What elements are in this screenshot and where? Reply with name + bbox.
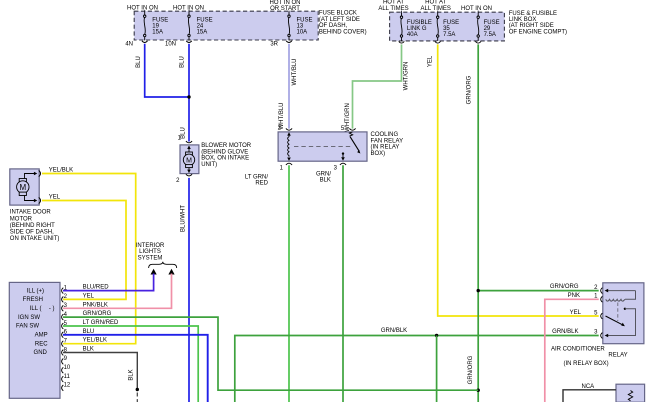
svg-text:FUSE: FUSE [152, 17, 168, 23]
svg-text:(AT LEFT SIDE: (AT LEFT SIDE [319, 17, 360, 23]
svg-text:RED: RED [255, 181, 268, 187]
pin number labels 1-12 [64, 285, 71, 388]
svg-text:YEL: YEL [49, 195, 61, 201]
svg-text:HOT IN ON: HOT IN ON [461, 6, 492, 12]
svg-text:11: 11 [64, 374, 71, 380]
svg-text:OF DASH,: OF DASH, [319, 23, 348, 29]
svg-text:BLU: BLU [83, 329, 95, 335]
svg-text:HOT IN ON: HOT IN ON [270, 0, 301, 6]
wire BLU/RED from pin 1 to interior lights [63, 274, 154, 291]
A/C relay dashed actuator [617, 303, 619, 322]
svg-text:29: 29 [484, 26, 491, 32]
fuse F35 symbol [435, 12, 441, 43]
svg-text:REC: REC [35, 341, 48, 347]
value label FUSE 35 7.5A [443, 20, 459, 38]
wire YEL from intake door motor to connector pin 2 [42, 201, 126, 300]
svg-text:FAN RELAY: FAN RELAY [371, 138, 404, 144]
fuse F19 symbol [142, 11, 148, 42]
svg-text:YEL: YEL [428, 55, 434, 67]
label INTERIOR LIGHTS SYSTEM [136, 243, 165, 261]
svg-text:FUSE: FUSE [197, 17, 213, 23]
svg-text:GRN/: GRN/ [316, 171, 331, 177]
blower motor M2 box [180, 145, 199, 174]
label AIR CONDITIONER RELAY (IN RELAY BOX) [551, 346, 628, 366]
svg-text:ALL TIMES: ALL TIMES [378, 6, 408, 12]
coil arrow up (pin 2) [287, 132, 291, 135]
fuse block (left) box [134, 11, 318, 40]
svg-text:BLOWER MOTOR: BLOWER MOTOR [201, 143, 252, 149]
svg-text:ILL (: ILL ( [30, 306, 42, 312]
svg-text:12: 12 [64, 383, 71, 389]
svg-text:10N: 10N [165, 42, 176, 48]
label FUSE & FUSIBLE LINK BOX (AT RIGHT SIDE OF ENGINE COMPT) [509, 11, 567, 36]
label BLOWER MOTOR (BEHIND GLOVE BOX, ON INTAKE UNIT) [201, 143, 252, 168]
svg-text:ON INTAKE UNIT): ON INTAKE UNIT) [10, 236, 60, 242]
label HOT AT ALL TIMES (fuse 35) [421, 0, 451, 12]
svg-text:- ): - ) [49, 306, 55, 312]
svg-text:WHT/BLU: WHT/BLU [292, 59, 298, 86]
A/C relay box [603, 283, 644, 344]
svg-text:HOT AT: HOT AT [383, 0, 404, 6]
junction dot GRN/ORG at bottom bus [477, 389, 480, 392]
svg-text:AMP: AMP [35, 333, 48, 339]
svg-text:FUSE & FUSIBLE: FUSE & FUSIBLE [509, 11, 557, 17]
svg-text:(IN RELAY BOX): (IN RELAY BOX) [564, 361, 609, 367]
svg-text:(BEHIND GLOVE: (BEHIND GLOVE [201, 149, 248, 155]
svg-text:COOLING: COOLING [371, 132, 399, 138]
svg-text:LT GRN/RED: LT GRN/RED [83, 320, 119, 326]
svg-text:YEL/BLK: YEL/BLK [49, 168, 73, 174]
svg-text:40A: 40A [407, 32, 418, 38]
wire BLK from pin 8 to ground splice [63, 353, 137, 390]
svg-text:M: M [19, 183, 26, 192]
svg-text:35: 35 [443, 26, 450, 32]
svg-text:INTAKE DOOR: INTAKE DOOR [10, 210, 52, 216]
cooling fan relay pin 5 connector [349, 128, 355, 130]
wire BLK dashed continuation [136, 393, 138, 402]
svg-text:BLK: BLK [129, 369, 135, 380]
svg-text:OF ENGINE COMPT): OF ENGINE COMPT) [509, 30, 567, 36]
wire PNK from A/C relay pin 1 [545, 299, 599, 402]
svg-text:FUSE: FUSE [443, 20, 459, 26]
relay switch arm from pin 5 [349, 132, 352, 136]
cooling fan relay pin 1 connector [286, 163, 292, 165]
svg-text:LINK G: LINK G [407, 26, 427, 32]
resistor in NCA box [628, 391, 632, 401]
svg-text:GRN/BLK: GRN/BLK [552, 329, 578, 335]
blower motor arrow down [187, 170, 191, 173]
node arrow to interior lights (PNK/BLK) [168, 269, 174, 275]
value label FUSE 13 10A [297, 17, 313, 35]
blower motor arrow up [187, 146, 191, 149]
A/C relay wire labels [550, 284, 582, 335]
svg-text:PNK/BLK: PNK/BLK [83, 302, 108, 308]
A/C relay switch arm from pin 5 [606, 316, 623, 325]
wire YEL from fuse 35 to A/C relay pin 5 [438, 44, 599, 316]
svg-text:HOT IN ON: HOT IN ON [127, 5, 158, 11]
wire GRN/BLK bus to A/C relay pin 3 [235, 336, 599, 402]
svg-text:OR START: OR START [270, 6, 300, 12]
blower motor symbol [183, 146, 194, 173]
value label FUSE 24 15A [197, 17, 213, 35]
svg-text:(AT RIGHT SIDE: (AT RIGHT SIDE [509, 23, 554, 29]
cooling fan relay pin 3 connector [340, 163, 346, 165]
junction dot GRN/ORG at branch [477, 289, 480, 292]
relay fixed contact stub to pin 3 [342, 152, 344, 154]
connector pin labels inside box [16, 288, 55, 356]
svg-text:BLU: BLU [180, 56, 186, 68]
NCA box (bottom right) [616, 384, 645, 402]
coil arrow down (pin 1) [287, 158, 291, 161]
fuse F13 symbol [286, 11, 292, 42]
cooling fan relay coil [288, 134, 289, 157]
relay dashed actuator line [294, 146, 352, 148]
brace over interior lights arrows [149, 262, 177, 268]
svg-text:UNIT): UNIT) [201, 162, 217, 168]
wire YEL/BLK from intake door motor to connector pin 7 [42, 174, 136, 344]
connector pin arcs 1-12 [62, 288, 64, 391]
fusible link G symbol [399, 12, 405, 43]
wire PNK/BLK from pin 3 to interior lights [63, 274, 172, 309]
svg-text:YEL: YEL [83, 293, 95, 299]
svg-text:BEHIND COVER): BEHIND COVER) [319, 29, 367, 35]
cooling fan relay pin 2 connector [286, 128, 292, 130]
wire GRN/ORG from pin 4 to bottom bus [63, 317, 478, 390]
A/C relay fixed contact [624, 308, 626, 310]
svg-text:BLU: BLU [181, 127, 187, 139]
cooling fan relay U-relay box [278, 132, 367, 161]
A/C relay coil arrow into pin 2 [605, 289, 609, 293]
svg-text:24: 24 [197, 23, 204, 29]
junction dot BLU [187, 95, 190, 98]
svg-text:4N: 4N [125, 42, 133, 48]
svg-text:RELAY: RELAY [608, 353, 627, 359]
A/C relay arrow into pin 3 [605, 334, 609, 338]
svg-text:FUSE: FUSE [484, 20, 500, 26]
svg-text:AIR CONDITIONER: AIR CONDITIONER [551, 346, 605, 352]
blower motor pin 1 connector [186, 141, 192, 143]
fuse F29 symbol [475, 12, 481, 43]
svg-text:FRESH: FRESH [23, 297, 43, 303]
svg-text:BLK: BLK [320, 178, 331, 184]
svg-text:YEL/BLK: YEL/BLK [83, 338, 107, 344]
label HOT IN ON OR START (fuse 13) [270, 0, 301, 12]
wire BLU from fuse 19 [145, 44, 189, 97]
left connector box (A/C control panel) [9, 282, 60, 398]
svg-text:WHT/GRN: WHT/GRN [404, 62, 410, 91]
svg-text:NCA: NCA [582, 384, 595, 390]
wire GRN/BLK branch down [436, 336, 438, 402]
svg-text:GND: GND [34, 350, 48, 356]
svg-text:BOX, ON INTAKE: BOX, ON INTAKE [201, 156, 249, 162]
wire BLU from fuse 24 to blower motor [188, 44, 190, 142]
svg-text:GRN/BLK: GRN/BLK [381, 328, 407, 334]
svg-text:ILL (+): ILL (+) [27, 288, 44, 294]
svg-text:HOT AT: HOT AT [425, 0, 446, 6]
A/C relay pin connectors [601, 288, 603, 339]
svg-text:BOX): BOX) [371, 151, 386, 157]
wire WHT/GRN from fusible link G to cooling fan relay pin 5 [353, 44, 402, 128]
label COOLING FAN RELAY (IN RELAY BOX) [371, 132, 404, 157]
fuse F24 symbol [186, 11, 192, 42]
svg-text:IGN SW: IGN SW [18, 315, 40, 321]
svg-text:PNK: PNK [568, 293, 580, 299]
svg-text:7.5A: 7.5A [484, 32, 496, 38]
dashed ticks above fuse block (left) [145, 10, 289, 11]
value label FUSE 29 7.5A [484, 20, 500, 38]
value label FUSIBLE LINK G 40A [407, 20, 432, 38]
svg-text:10: 10 [64, 365, 71, 371]
dashed ticks above fuse & fusible link box [402, 11, 479, 13]
junction dot GRN/BLK branch [435, 334, 438, 337]
svg-text:ALL TIMES: ALL TIMES [421, 6, 451, 12]
splice dot BLK [136, 388, 139, 391]
svg-text:SIDE OF DASH,: SIDE OF DASH, [10, 230, 54, 236]
svg-text:BLU: BLU [136, 56, 142, 68]
wire BLU from pin 6 [63, 335, 208, 402]
svg-text:BLK: BLK [83, 347, 94, 353]
label FUSE BLOCK (AT LEFT SIDE OF DASH, BEHIND COVER) [319, 11, 367, 36]
blower motor pin 2 connector [186, 174, 192, 176]
intake door motor pin arrows [34, 172, 37, 176]
intake door motor M1 box [10, 169, 39, 205]
node arrow to interior lights (BLU/RED) [151, 269, 157, 275]
wire label LT GRN/ RED [245, 175, 269, 187]
svg-text:MOTOR: MOTOR [10, 216, 33, 222]
svg-text:LIGHTS: LIGHTS [139, 249, 161, 255]
svg-text:BLU/WHT: BLU/WHT [180, 205, 186, 232]
wire WHT/BLU from fuse 13 to cooling fan relay pin 2 [288, 44, 290, 129]
A/C relay coil circuit [606, 291, 636, 302]
svg-text:3R: 3R [270, 42, 278, 48]
svg-text:13: 13 [297, 23, 304, 29]
svg-text:INTERIOR: INTERIOR [136, 243, 165, 249]
fuse & fusible link box (right) [390, 12, 505, 41]
svg-text:LINK BOX: LINK BOX [509, 17, 537, 23]
wire NCA (black) [563, 390, 616, 402]
svg-text:(BEHIND RIGHT: (BEHIND RIGHT [10, 223, 55, 229]
svg-text:GRN/ORG: GRN/ORG [550, 284, 579, 290]
svg-text:M: M [186, 157, 192, 164]
wire GRN/BLK from cooling fan relay pin 3 [342, 165, 344, 402]
wire LT GRN/RED from pin 5 [63, 326, 198, 402]
svg-text:GRN/ORG: GRN/ORG [83, 311, 112, 317]
svg-text:FAN SW: FAN SW [16, 324, 39, 330]
wire label GRN/ BLK [316, 171, 331, 183]
svg-text:SYSTEM: SYSTEM [138, 255, 163, 261]
svg-text:BLU/RED: BLU/RED [83, 285, 110, 291]
svg-text:FUSE: FUSE [297, 17, 313, 23]
svg-text:10A: 10A [297, 30, 308, 36]
value label FUSE 19 15A [152, 17, 168, 35]
intake door motor pin connectors [39, 170, 41, 176]
A/C relay pin number labels [594, 285, 598, 335]
svg-text:(IN RELAY: (IN RELAY [371, 145, 400, 151]
svg-text:YEL: YEL [570, 310, 582, 316]
wire LT GRN/RED from cooling fan relay pin 1 [288, 165, 290, 402]
wire GRN/ORG from fuse 29 [477, 44, 479, 402]
svg-text:15A: 15A [197, 30, 208, 36]
svg-text:LT GRN/: LT GRN/ [245, 175, 268, 181]
svg-text:19: 19 [152, 23, 159, 29]
svg-text:15A: 15A [152, 30, 163, 36]
svg-text:FUSE BLOCK: FUSE BLOCK [319, 11, 357, 17]
A/C relay contact wire to pin 3 [608, 309, 636, 336]
label INTAKE DOOR MOTOR (BEHIND RIGHT SIDE OF DASH, ON INTAKE UNIT) [10, 210, 60, 242]
svg-text:7.5A: 7.5A [443, 32, 455, 38]
intake door motor symbol [17, 174, 36, 201]
wire GRN/ORG branch to A/C relay pin 2 [478, 290, 599, 292]
svg-text:GRN/ORG: GRN/ORG [468, 355, 474, 384]
label HOT AT ALL TIMES (fusible link G) [378, 0, 408, 12]
svg-text:WHT/GRN: WHT/GRN [345, 103, 351, 132]
svg-text:FUSIBLE: FUSIBLE [407, 20, 432, 26]
wire BLU/WHT from blower motor pin 2 [188, 178, 190, 402]
svg-text:GRN/ORG: GRN/ORG [467, 75, 473, 104]
